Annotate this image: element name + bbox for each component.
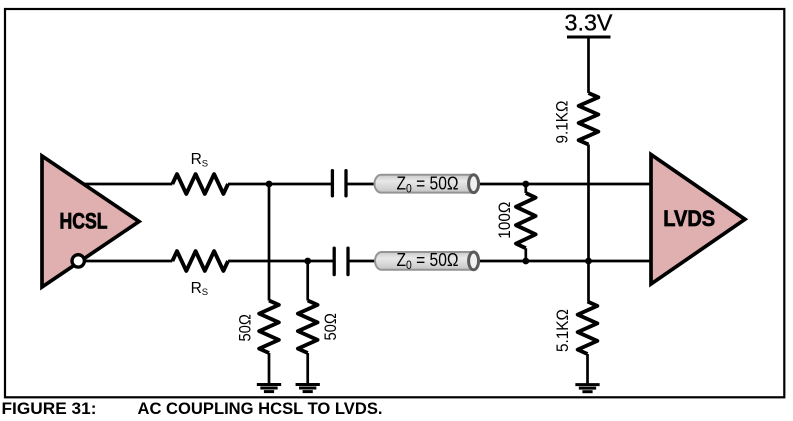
svg-text:LVDS: LVDS <box>663 206 715 231</box>
svg-text:RS: RS <box>191 151 209 169</box>
svg-text:50Ω: 50Ω <box>321 313 340 341</box>
svg-text:FIGURE 31:: FIGURE 31: <box>2 399 97 418</box>
svg-text:5.1KΩ: 5.1KΩ <box>553 309 572 352</box>
svg-text:RS: RS <box>191 280 209 298</box>
svg-text:Z0 = 50Ω: Z0 = 50Ω <box>397 250 459 272</box>
svg-text:HCSL: HCSL <box>60 209 108 234</box>
svg-text:AC COUPLING HCSL TO LVDS.: AC COUPLING HCSL TO LVDS. <box>138 399 383 418</box>
svg-text:9.1KΩ: 9.1KΩ <box>552 101 571 144</box>
svg-text:100Ω: 100Ω <box>495 202 514 239</box>
svg-text:Z0 = 50Ω: Z0 = 50Ω <box>397 173 459 195</box>
svg-text:3.3V: 3.3V <box>565 10 613 36</box>
svg-text:50Ω: 50Ω <box>236 314 255 342</box>
